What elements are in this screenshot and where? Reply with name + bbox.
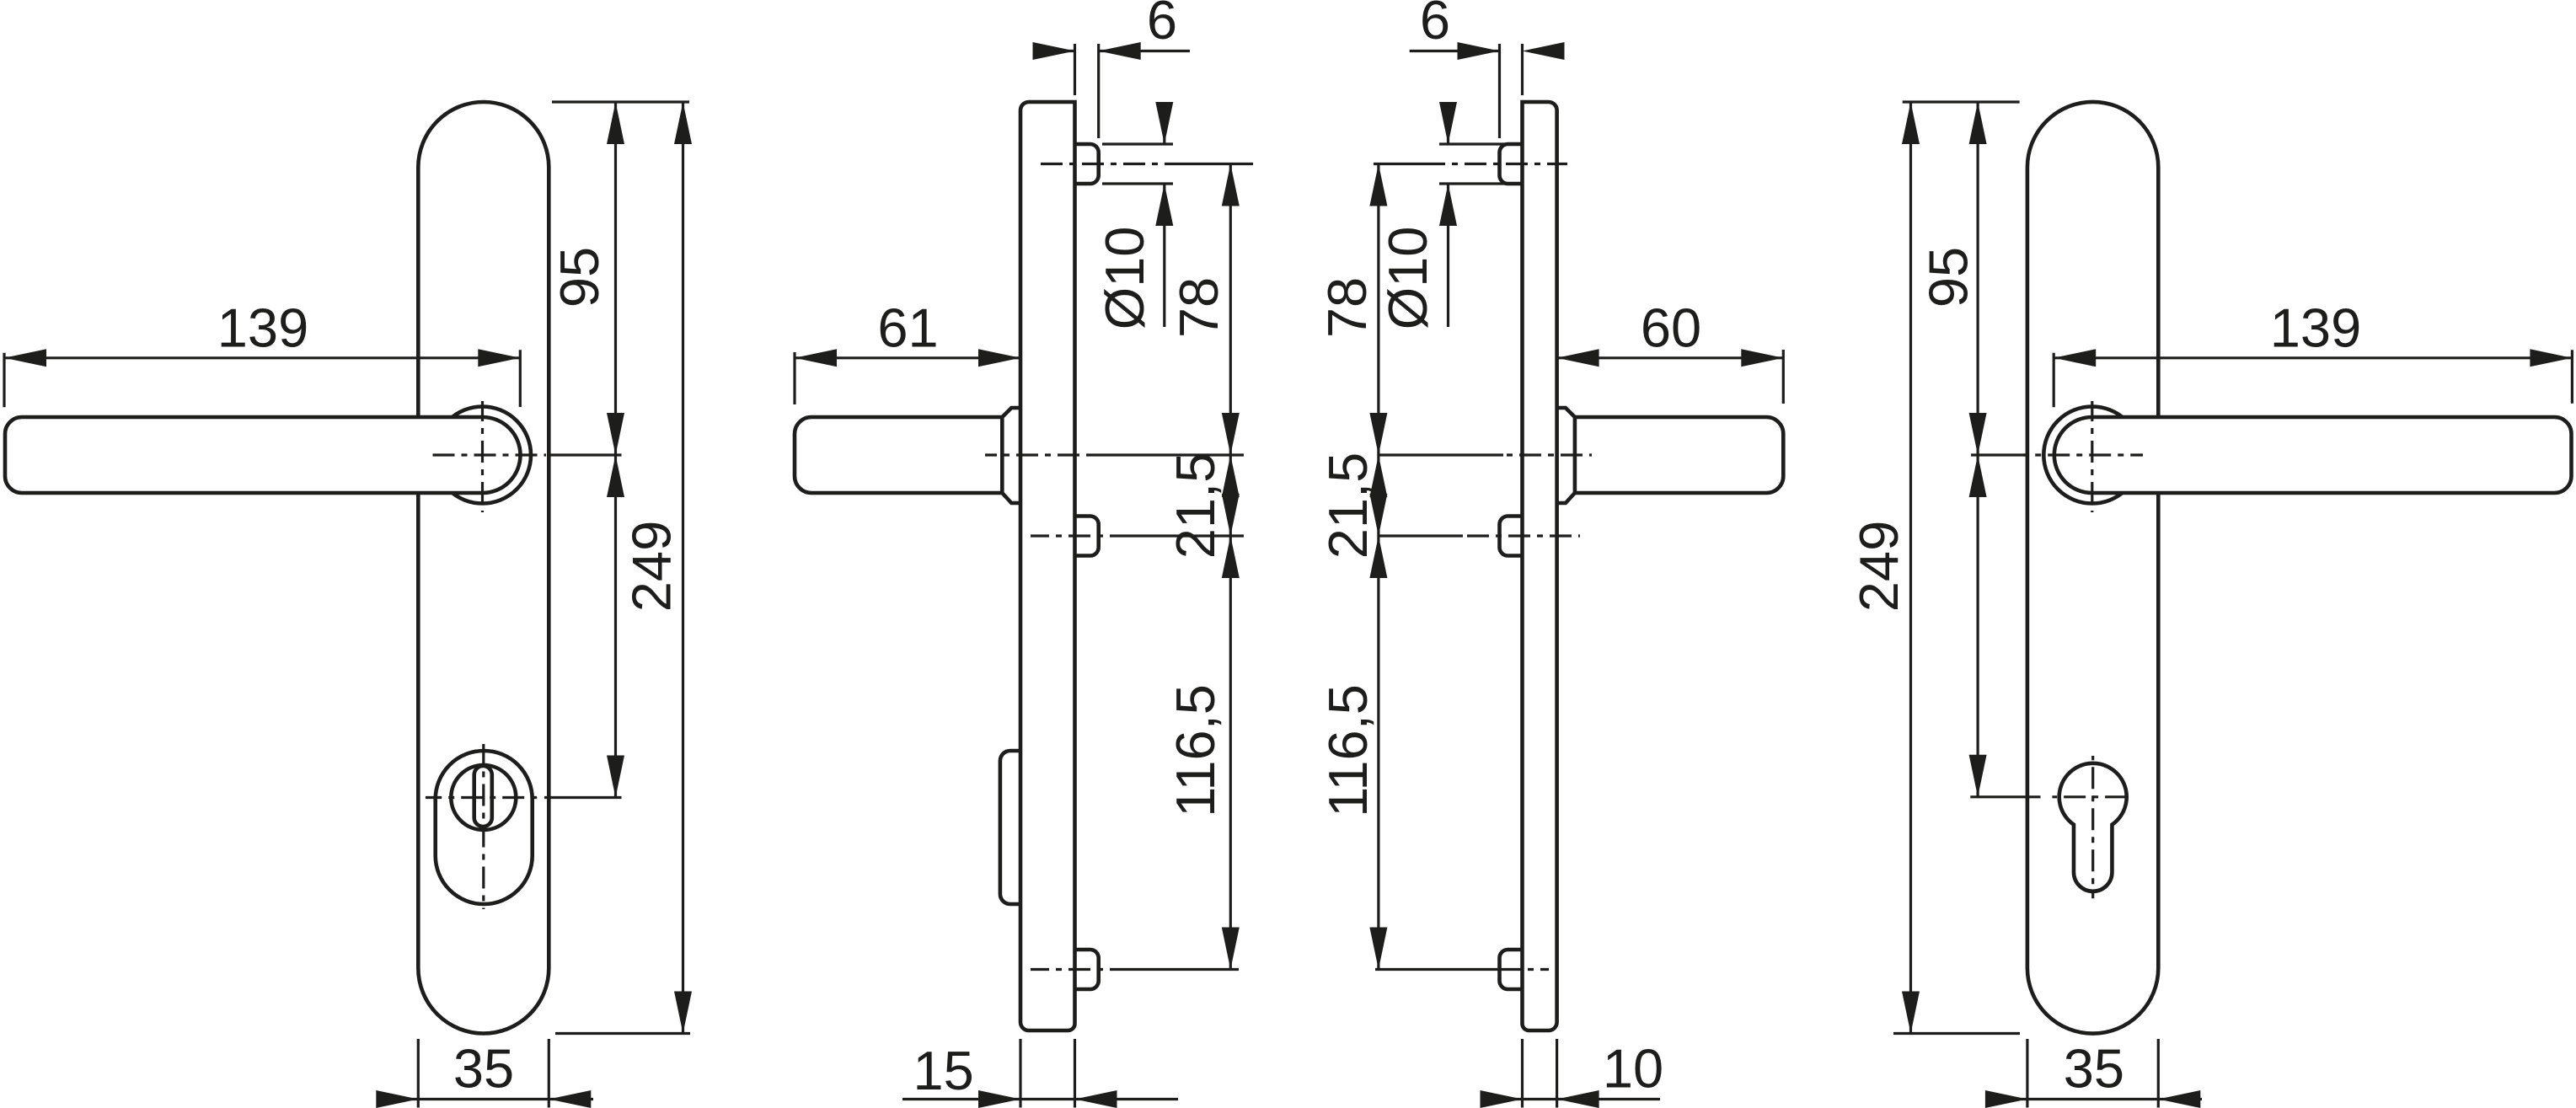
view 4 dim 95 top arrow — [1969, 102, 1987, 144]
view 3 dim 60 arrows — [1557, 349, 1599, 367]
view 1 keyhole slot — [474, 766, 492, 827]
view 4 handle axis centreline vertical — [2091, 401, 2093, 512]
view 3 top screw centreline — [1441, 163, 1567, 165]
view 3 dia10 extension top — [1439, 142, 1523, 145]
view 2 dim 61 dimension line — [795, 356, 1020, 359]
view 3 spindle follower boss — [1500, 517, 1523, 556]
view 3 dia10 dimension line upper — [1447, 107, 1449, 144]
svg-text:61: 61 — [877, 297, 938, 358]
view 3 follower centreline — [1463, 534, 1580, 537]
view 1 handle axis centreline vertical — [481, 401, 484, 512]
view 4 lever handle (rod with rounded end cap) — [2054, 417, 2572, 493]
view 3 bowtie at follower axis — [1369, 494, 1387, 536]
view 3 plate side profile — [1523, 102, 1557, 1030]
view 2 top screw centreline — [1037, 163, 1173, 165]
view 3 handle axis centreline — [1503, 453, 1592, 456]
view 4 dim 139 right tick — [2571, 350, 2573, 404]
view 2 bottom screw centreline — [1031, 968, 1111, 971]
svg-text:60: 60 — [1641, 297, 1701, 358]
view 2 follower centreline — [1031, 534, 1112, 537]
view 1 cylinder-axis arrow — [607, 756, 624, 798]
view 4 dim 139 left tick — [2053, 353, 2055, 408]
svg-text:35: 35 — [2064, 1038, 2124, 1100]
view 2 dim 78/21,5/116,5 line — [1229, 164, 1232, 970]
view 2 dim 6 dimension line — [1036, 50, 1075, 52]
view 1 cylinder circle — [451, 765, 516, 830]
view 4 dim 95 bottom bowtie arrows — [1969, 413, 1987, 455]
view 1 lever handle (rod with rounded end cap) — [5, 417, 521, 493]
view 2 dim 61 left tick — [793, 352, 795, 404]
view 4 dim 139 dimension line — [2054, 356, 2572, 359]
svg-text:116,5: 116,5 — [1317, 684, 1379, 817]
view 1 cylinder centreline horizontal — [426, 796, 541, 799]
view 3 lever handle profile — [1575, 417, 1783, 493]
view 3 bowtie at handle axis — [1369, 413, 1387, 455]
svg-text:78: 78 — [1168, 277, 1229, 338]
view 3 dia10 arrows — [1439, 102, 1457, 144]
view 3 follower extension to dims — [1379, 534, 1463, 537]
view 2 dia10 extension top — [1102, 142, 1173, 145]
svg-text:116,5: 116,5 — [1165, 684, 1226, 817]
view 2 dim 15 right tick — [1074, 1039, 1076, 1108]
view 4 handle axis centreline horizontal — [2023, 453, 2143, 456]
view 3 dim 10 arrows — [1481, 1090, 1523, 1108]
view 4 cylinder centreline horizontal — [2052, 795, 2131, 798]
svg-text:Ø10: Ø10 — [1094, 227, 1155, 330]
view 3 dim 6 dimension line — [1410, 50, 1500, 52]
view 3 dim 6 extension line b — [1498, 44, 1501, 138]
view 4 interior plate outline (stadium 35x249) — [2027, 102, 2158, 1034]
view 2 bowtie at follower axis — [1222, 494, 1240, 536]
view 3 dia10 extension bottom — [1439, 182, 1523, 185]
view 1 handle collar outer circle — [434, 407, 531, 504]
svg-text:139: 139 — [217, 297, 308, 358]
svg-text:78: 78 — [1316, 277, 1378, 338]
view 3 dim 6 extension line a — [1521, 44, 1524, 95]
view 4 dim 35 arrows — [1985, 1090, 2027, 1108]
view 3 collar top chamfer — [1557, 408, 1575, 417]
view 3 top screw extension to dims — [1374, 163, 1441, 165]
view 3 bottom screw extension to dims — [1375, 968, 1500, 971]
view 4 dim 35 right tick — [2157, 1039, 2160, 1108]
view 2 bottom screw extension to dims — [1111, 968, 1239, 971]
view 2 top fixing screw boss — [1075, 144, 1099, 184]
view 4 bottom extension line — [1893, 1032, 2020, 1035]
view 4 dim 249 line — [1909, 102, 1912, 1034]
view 1 exterior plate outline (stadium 35x249) — [418, 102, 549, 1034]
view 1 dim 35 right tick — [548, 1039, 550, 1108]
view 2 dim 15 left tick — [1019, 1039, 1021, 1108]
view 2 dim top arrow at screw axis — [1222, 164, 1240, 206]
svg-text:6: 6 — [1420, 0, 1450, 51]
view 4 dim 139 arrows — [2054, 349, 2096, 367]
view 3 dim top arrow at screw axis — [1369, 164, 1387, 206]
view 2 dia10 arrows — [1155, 102, 1173, 144]
view 3 collar bottom chamfer — [1557, 493, 1575, 503]
view 3 dim 78/21,5/116,5 line — [1377, 164, 1379, 970]
view 4 dim 35 dimension line — [1986, 1098, 2202, 1100]
svg-text:95: 95 — [1917, 247, 1979, 308]
view 1 dim 139 right arrow — [478, 349, 520, 367]
view 3 dim 10 right tick — [1556, 1039, 1558, 1108]
svg-text:139: 139 — [2270, 297, 2361, 358]
view 1 dim 139 dimension line — [4, 356, 520, 359]
view 1 dim 249 bottom arrow — [674, 992, 692, 1034]
svg-text:15: 15 — [913, 1040, 973, 1101]
view 3 dim 10 left tick — [1521, 1039, 1524, 1108]
svg-text:21,5: 21,5 — [1165, 452, 1226, 559]
view 1 dim 35 left tick — [417, 1039, 420, 1108]
view 1 dim 95 line (top to handle axis, continues to cylinder axis) — [614, 102, 617, 798]
view 2 dim 15 dimension line — [902, 1098, 1178, 1100]
view 2 collar top chamfer — [1002, 408, 1020, 417]
view 4 cylinder-axis arrow — [1969, 755, 1987, 797]
view 4 top extension line — [1903, 100, 2020, 103]
view 2 oval escutcheon boss — [1000, 751, 1020, 904]
view 3 collar face line — [1573, 417, 1577, 493]
view 2 dim 61 arrows — [795, 349, 837, 367]
view 1 dim 139 right extension tick — [519, 350, 522, 407]
view 2 handle axis centreline — [985, 453, 1087, 456]
view 1 dim 139 left extension tick — [3, 353, 5, 408]
view 4 dim 249 top arrow — [1902, 102, 1920, 144]
view 2 collar face line — [1000, 417, 1004, 493]
view 3 dim 60 right tick — [1782, 350, 1785, 404]
view 2 dia10 dimension line lower — [1163, 184, 1165, 327]
svg-text:10: 10 — [1603, 1038, 1663, 1100]
view 3 top fixing screw boss — [1500, 144, 1523, 184]
view 2 dim 6 extension line a — [1074, 44, 1076, 95]
view 4 cylinder centreline vertical — [2091, 756, 2094, 898]
view 4 dim 35 left tick — [2026, 1039, 2028, 1108]
view 2 dim 6 extension line b — [1097, 44, 1100, 138]
view 2 bottom arrow at screw axis — [1222, 928, 1240, 970]
svg-text:35: 35 — [453, 1038, 514, 1100]
svg-text:249: 249 — [1848, 521, 1909, 612]
view 4 dim 95 line (top to handle axis, continues to cylinder axis) — [1977, 102, 1979, 797]
view 2 dia10 extension bottom — [1102, 182, 1173, 185]
view 4 cylinder-centre extension line — [1970, 795, 2040, 798]
view 1 dim 95 bottom bowtie arrows — [607, 413, 624, 455]
view 2 collar bottom chamfer — [1002, 493, 1020, 503]
view 2 spindle follower boss — [1075, 517, 1099, 556]
view 4 handle-centre extension line — [1971, 453, 2027, 456]
view 1 dim 95 top arrow — [607, 102, 624, 144]
view 2 dia10 dimension line upper — [1163, 107, 1165, 144]
view 1 oval security escutcheon cut-out — [436, 751, 533, 904]
view 2 plate side profile — [1020, 102, 1075, 1030]
view 4 profile-cylinder keyhole — [2059, 763, 2127, 891]
view 3 bottom fixing screw boss — [1500, 950, 1523, 989]
view 1 handle axis centreline horizontal — [431, 453, 546, 456]
view 2 bowtie at handle axis — [1222, 413, 1240, 455]
view 2 top screw extension to dims — [1173, 163, 1253, 165]
view 1 top extension line — [552, 100, 689, 103]
view 3 dim 6 arrows — [1458, 42, 1500, 60]
view 4 dim 249 bottom arrow — [1902, 992, 1920, 1034]
view 1 dim 249 top arrow — [674, 102, 692, 144]
svg-text:95: 95 — [549, 247, 610, 308]
view 3 dim 60 dimension line — [1557, 356, 1784, 359]
view 2 follower extension to dims — [1112, 534, 1244, 537]
view 3 dia10 dimension line lower — [1447, 184, 1449, 327]
view 1 dim 139 left arrow — [4, 349, 46, 367]
view 1 dim 35 arrows — [376, 1090, 418, 1108]
view 1 dim 249 line — [682, 102, 684, 1034]
view 2 dim 6 arrows — [1033, 42, 1075, 60]
svg-text:249: 249 — [621, 521, 683, 612]
view 3 dim 10 dimension line — [1481, 1098, 1661, 1100]
view 2 dim 15 arrows — [978, 1090, 1020, 1108]
view 3 handle axis extension to dims — [1379, 453, 1503, 456]
svg-text:6: 6 — [1147, 0, 1177, 51]
svg-text:Ø10: Ø10 — [1377, 227, 1438, 330]
view 2 bottom fixing screw boss — [1075, 950, 1099, 989]
view 4 handle collar outer circle — [2043, 407, 2140, 504]
view 2 handle axis extension to dims — [1087, 453, 1244, 456]
view 1 cylinder centreline vertical — [482, 744, 485, 909]
view 2 lever handle profile — [795, 417, 1002, 493]
svg-text:21,5: 21,5 — [1317, 452, 1379, 559]
view 1 handle-centre extension line — [549, 453, 621, 456]
view 3 bottom arrow at screw axis — [1369, 928, 1387, 970]
view 1 dim 35 dimension line — [378, 1098, 593, 1100]
view 1 bottom extension line — [555, 1032, 690, 1035]
view 3 bottom screw centreline — [1500, 968, 1550, 971]
view 1 cylinder-centre extension line — [544, 796, 622, 799]
